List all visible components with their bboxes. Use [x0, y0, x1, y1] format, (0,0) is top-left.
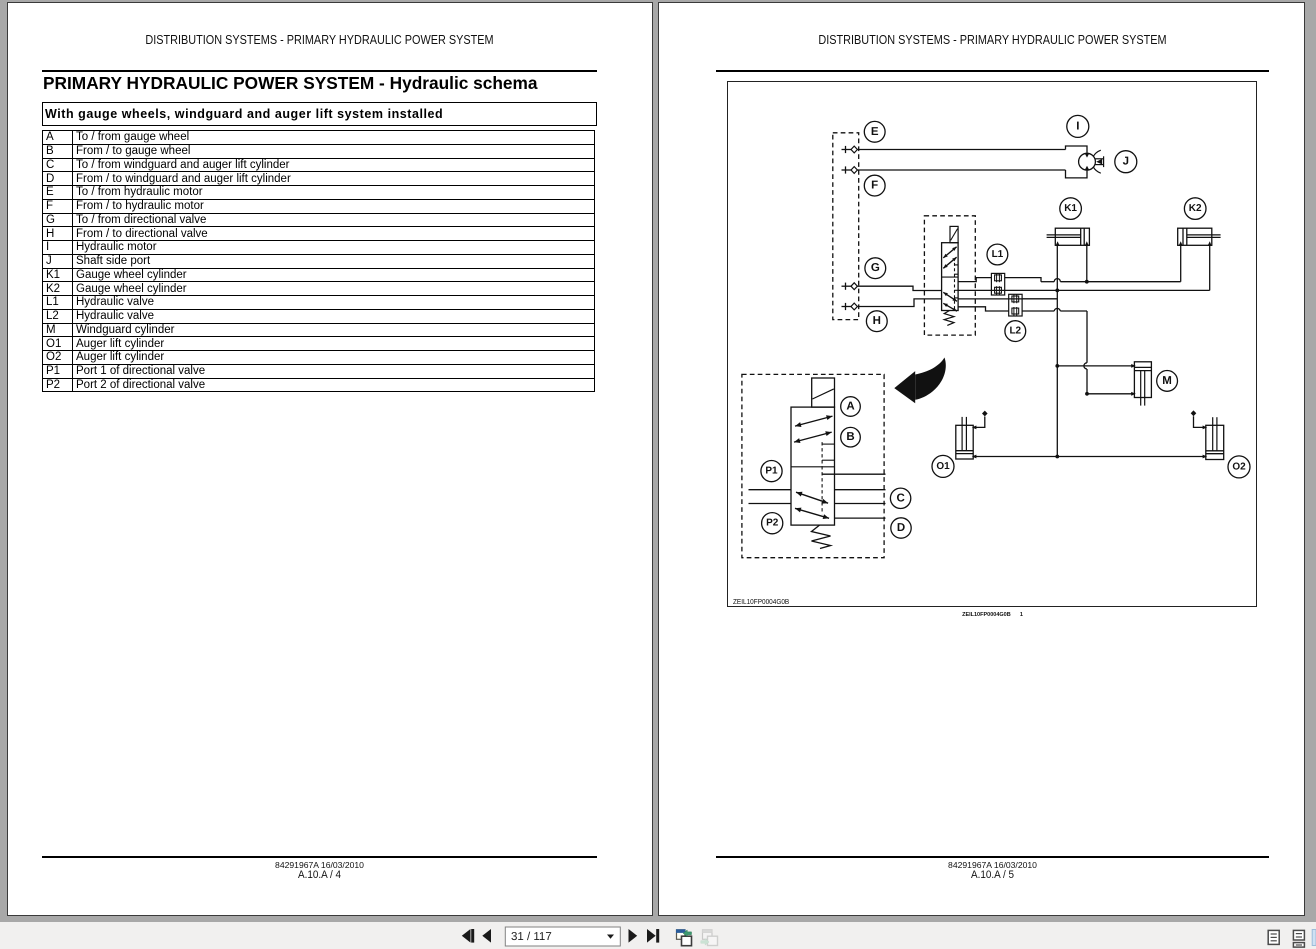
valve upper arrow 2 — [943, 257, 956, 268]
node A — [841, 397, 861, 417]
svg-text:K1: K1 — [1064, 203, 1077, 214]
node F — [864, 175, 885, 196]
svg-text:G: G — [871, 262, 880, 274]
detail port line right 1 — [835, 489, 886, 491]
wire F line — [857, 169, 1065, 171]
junction dot M bottom corner — [1085, 392, 1089, 396]
arrow into O1 top — [972, 426, 977, 430]
svg-text:M: M — [1162, 375, 1172, 387]
svg-text:A: A — [846, 401, 854, 413]
valve lower arrow 2 — [943, 303, 957, 311]
toolbar — [0, 922, 1316, 949]
svg-text:B: B — [846, 431, 854, 443]
node P1 — [761, 461, 782, 482]
valve spring — [944, 311, 954, 326]
wire H to valve — [857, 299, 941, 307]
wire auger line — [973, 456, 1206, 458]
node I — [1067, 115, 1089, 137]
svg-text:O1: O1 — [936, 461, 950, 472]
motor I bottom arrow — [1085, 166, 1089, 170]
detail valve dashed box — [742, 374, 884, 557]
wire L1 to cylinders — [1005, 278, 1041, 282]
cylinder O2 body — [1206, 425, 1224, 459]
check valve L1 bottom element — [995, 287, 1002, 293]
motor I top arrow — [1085, 154, 1089, 158]
svg-text:E: E — [871, 126, 879, 138]
cylinder O1 piston — [956, 450, 973, 452]
wire G line to K2 — [958, 289, 1210, 291]
detail lower arrow 1 — [796, 492, 828, 503]
check valve L2 top element — [1012, 296, 1019, 302]
cylinder O1 body — [956, 425, 973, 459]
detail port line P1 level — [822, 473, 885, 475]
svg-text:K2: K2 — [1189, 203, 1202, 214]
shaft side port J symbol — [1095, 158, 1103, 160]
valve solenoid box — [950, 226, 958, 242]
wire K1 left port drop — [1056, 245, 1058, 290]
svg-text:J: J — [1123, 156, 1129, 168]
detail valve body — [791, 407, 835, 525]
coupler E — [842, 149, 852, 151]
wire K1 right port drop — [1086, 245, 1088, 281]
node H — [866, 311, 887, 332]
detail port line left 1 — [749, 489, 792, 491]
wire valve to L1 — [958, 278, 991, 282]
svg-text:C: C — [896, 492, 904, 504]
cylinder M body — [1134, 362, 1151, 398]
node O2 — [1228, 456, 1250, 478]
svg-text:L2: L2 — [1009, 326, 1021, 337]
svg-text:D: D — [897, 522, 905, 534]
check valve L1 top element — [995, 275, 1002, 281]
wire main drop — [1056, 290, 1058, 456]
swoosh arrow — [894, 371, 915, 403]
motor I bracket top — [1066, 146, 1088, 153]
right page — [658, 2, 1305, 916]
detail pilot dashed line — [821, 442, 823, 514]
wire L2 to M — [1022, 298, 1057, 300]
detail port line C — [835, 503, 886, 505]
cylinder K2 body — [1178, 228, 1212, 245]
check valve L2 box — [1009, 294, 1022, 316]
junction dot main riser — [1055, 289, 1059, 293]
wire H line to drop — [958, 298, 1057, 300]
detail upper arrow 1 — [795, 416, 833, 426]
cylinder K1 rod — [1047, 234, 1081, 236]
wire M bottom feed — [1087, 393, 1134, 395]
check valve L1 box — [991, 273, 1004, 295]
valve upper arrow 1 — [943, 247, 956, 258]
wire E line — [857, 149, 1065, 151]
node G — [865, 258, 886, 279]
cylinder K2 piston — [1182, 228, 1184, 245]
wire M top feed — [1057, 365, 1134, 367]
cylinder K1 body — [1055, 228, 1089, 245]
cylinder K2 port arrows — [1179, 241, 1183, 246]
cylinder M piston — [1134, 366, 1151, 368]
svg-text:O2: O2 — [1232, 461, 1246, 472]
arrow into O2 bottom — [1203, 455, 1208, 459]
cylinder K1 port arrows — [1056, 241, 1060, 246]
detail port line left 2 — [749, 503, 792, 505]
arrow into M top — [1131, 364, 1136, 368]
node K1 — [1060, 198, 1082, 220]
detail lower arrow 2 — [795, 508, 829, 518]
detail solenoid box — [812, 378, 835, 407]
valve pilot dashed line — [954, 263, 956, 311]
cylinder K1 piston — [1080, 228, 1082, 245]
cylinder O2 piston — [1206, 450, 1224, 452]
junction dot K1 right — [1085, 280, 1089, 284]
node B — [841, 427, 861, 447]
svg-text:P2: P2 — [766, 518, 779, 529]
node C — [890, 488, 910, 508]
svg-text:H: H — [873, 315, 881, 327]
cylinder O1 rod — [961, 417, 963, 451]
motor I bracket bottom — [1066, 170, 1088, 178]
coupler G — [842, 285, 852, 287]
valve lower arrow 1 — [943, 292, 957, 301]
cylinder O2 rod — [1212, 417, 1214, 451]
junction dot auger line — [1055, 455, 1059, 459]
node L2 — [1005, 321, 1026, 342]
node J — [1115, 151, 1137, 173]
svg-text:P1: P1 — [765, 466, 778, 477]
node L1 — [987, 244, 1008, 265]
svg-text:L1: L1 — [992, 249, 1004, 260]
detail upper arrow 2 — [794, 432, 832, 442]
junction dot M branch — [1055, 364, 1059, 368]
valve enclosure dashed box — [924, 216, 975, 335]
connector block dashed box — [833, 133, 859, 320]
coupler F — [842, 169, 852, 171]
arrow into O2 top — [1203, 426, 1208, 430]
node M — [1157, 371, 1178, 392]
svg-text:31 / 117: 31 / 117 — [511, 931, 552, 943]
cylinder K2 rod — [1187, 234, 1221, 236]
node E — [864, 121, 885, 142]
cylinder O1 top port — [973, 417, 985, 428]
valve body — [942, 243, 959, 311]
motor I circle — [1079, 153, 1096, 170]
cylinder M rod — [1140, 371, 1142, 406]
coupler H — [842, 306, 852, 308]
cylinder O2 top port — [1194, 416, 1206, 427]
arrow into O1 bottom — [972, 455, 977, 459]
arrow into M bottom — [1131, 392, 1136, 396]
node O1 — [932, 455, 954, 477]
node D — [891, 518, 911, 538]
node K2 — [1184, 198, 1206, 220]
wire valve to L2 lower — [958, 307, 1009, 311]
svg-text:I: I — [1076, 120, 1079, 132]
svg-text:F: F — [871, 180, 878, 192]
node P2 — [762, 513, 783, 534]
wire K2 left port riser — [1180, 245, 1182, 281]
detail spring — [812, 525, 831, 548]
detail port line D — [835, 517, 886, 519]
left page — [7, 2, 653, 916]
check valve L2 bottom element — [1012, 308, 1019, 314]
wire G to valve — [857, 286, 941, 290]
